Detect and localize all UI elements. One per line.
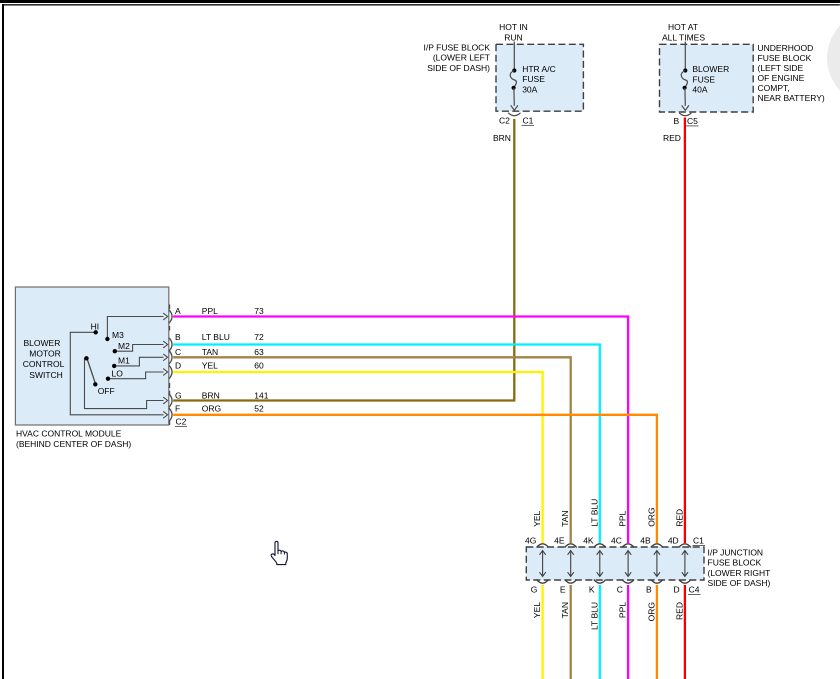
svg-text:NEAR BATTERY): NEAR BATTERY) bbox=[758, 93, 825, 103]
svg-text:141: 141 bbox=[254, 391, 268, 401]
svg-text:HVAC CONTROL MODULE: HVAC CONTROL MODULE bbox=[16, 429, 122, 439]
svg-text:SWITCH: SWITCH bbox=[29, 370, 63, 380]
svg-text:COMPT,: COMPT, bbox=[758, 83, 790, 93]
svg-text:ORG: ORG bbox=[646, 602, 656, 621]
svg-text:PPL: PPL bbox=[618, 510, 628, 526]
svg-text:CONTROL: CONTROL bbox=[23, 359, 65, 369]
svg-text:4B: 4B bbox=[640, 536, 651, 546]
svg-text:F: F bbox=[175, 404, 180, 414]
svg-text:C: C bbox=[175, 347, 181, 357]
svg-text:TAN: TAN bbox=[202, 347, 218, 357]
svg-text:PPL: PPL bbox=[202, 306, 218, 316]
svg-text:LT BLU: LT BLU bbox=[202, 332, 230, 342]
svg-text:SIDE OF DASH): SIDE OF DASH) bbox=[708, 578, 771, 588]
svg-text:52: 52 bbox=[254, 404, 264, 414]
svg-text:72: 72 bbox=[254, 332, 264, 342]
svg-text:ALL TIMES: ALL TIMES bbox=[662, 32, 705, 42]
svg-text:(BEHIND CENTER OF DASH): (BEHIND CENTER OF DASH) bbox=[16, 439, 131, 449]
svg-text:FUSE BLOCK: FUSE BLOCK bbox=[758, 53, 812, 63]
svg-text:(LOWER LEFT: (LOWER LEFT bbox=[433, 53, 490, 63]
svg-text:FUSE: FUSE bbox=[522, 74, 545, 84]
svg-text:UNDERHOOD: UNDERHOOD bbox=[758, 43, 814, 53]
svg-text:60: 60 bbox=[254, 361, 264, 371]
svg-text:30A: 30A bbox=[522, 84, 537, 94]
svg-text:63: 63 bbox=[254, 347, 264, 357]
svg-text:HI: HI bbox=[91, 322, 100, 332]
svg-text:4D: 4D bbox=[668, 536, 679, 546]
svg-text:D: D bbox=[674, 585, 680, 595]
svg-text:4K: 4K bbox=[583, 536, 594, 546]
svg-text:M3: M3 bbox=[112, 330, 124, 340]
svg-text:RED: RED bbox=[674, 509, 684, 527]
svg-text:OF ENGINE: OF ENGINE bbox=[758, 73, 805, 83]
svg-text:73: 73 bbox=[254, 306, 264, 316]
svg-text:YEL: YEL bbox=[532, 510, 542, 526]
svg-text:ORG: ORG bbox=[646, 507, 656, 526]
svg-text:HTR A/C: HTR A/C bbox=[522, 64, 556, 74]
svg-text:A: A bbox=[175, 306, 181, 316]
svg-text:HOT AT: HOT AT bbox=[668, 22, 698, 32]
svg-text:G: G bbox=[531, 585, 538, 595]
svg-text:RED: RED bbox=[663, 133, 681, 143]
svg-text:M1: M1 bbox=[118, 355, 130, 365]
svg-text:BRN: BRN bbox=[202, 391, 220, 401]
svg-text:M2: M2 bbox=[118, 341, 130, 351]
svg-text:40A: 40A bbox=[692, 84, 707, 94]
svg-text:YEL: YEL bbox=[202, 361, 218, 371]
svg-text:G: G bbox=[175, 391, 182, 401]
svg-text:(LOWER RIGHT: (LOWER RIGHT bbox=[708, 568, 771, 578]
svg-text:RED: RED bbox=[674, 602, 684, 620]
svg-text:I/P FUSE BLOCK: I/P FUSE BLOCK bbox=[424, 42, 491, 52]
svg-text:B: B bbox=[175, 332, 181, 342]
svg-text:BRN: BRN bbox=[493, 133, 511, 143]
svg-text:FUSE BLOCK: FUSE BLOCK bbox=[708, 558, 762, 568]
svg-text:HOT IN: HOT IN bbox=[499, 22, 528, 32]
svg-text:4E: 4E bbox=[554, 536, 565, 546]
svg-text:FUSE: FUSE bbox=[692, 74, 715, 84]
svg-text:C: C bbox=[617, 585, 623, 595]
svg-text:OFF: OFF bbox=[98, 386, 115, 396]
svg-text:I/P JUNCTION: I/P JUNCTION bbox=[708, 548, 764, 558]
svg-text:D: D bbox=[175, 361, 181, 371]
svg-text:BLOWER: BLOWER bbox=[24, 338, 61, 348]
svg-text:C2: C2 bbox=[176, 417, 187, 427]
svg-text:C1: C1 bbox=[693, 536, 704, 546]
svg-text:C5: C5 bbox=[687, 116, 698, 126]
svg-text:PPL: PPL bbox=[618, 602, 628, 618]
svg-text:LO: LO bbox=[112, 368, 124, 378]
svg-text:RUN: RUN bbox=[504, 32, 522, 42]
svg-text:LT BLU: LT BLU bbox=[589, 499, 599, 527]
svg-text:4G: 4G bbox=[525, 536, 536, 546]
svg-text:TAN: TAN bbox=[560, 510, 570, 526]
svg-text:E: E bbox=[560, 585, 566, 595]
svg-text:SIDE OF DASH): SIDE OF DASH) bbox=[427, 63, 490, 73]
svg-text:(LEFT SIDE: (LEFT SIDE bbox=[758, 63, 804, 73]
svg-text:C4: C4 bbox=[689, 585, 700, 595]
svg-text:B: B bbox=[674, 116, 680, 126]
svg-text:MOTOR: MOTOR bbox=[29, 349, 60, 359]
svg-text:K: K bbox=[589, 585, 595, 595]
svg-text:C1: C1 bbox=[523, 116, 534, 126]
svg-text:ORG: ORG bbox=[202, 404, 221, 414]
svg-text:BLOWER: BLOWER bbox=[692, 64, 729, 74]
svg-text:LT BLU: LT BLU bbox=[589, 602, 599, 630]
svg-text:B: B bbox=[646, 585, 652, 595]
svg-text:TAN: TAN bbox=[560, 602, 570, 618]
svg-text:C2: C2 bbox=[499, 116, 510, 126]
svg-text:YEL: YEL bbox=[532, 602, 542, 618]
svg-text:4C: 4C bbox=[611, 536, 622, 546]
